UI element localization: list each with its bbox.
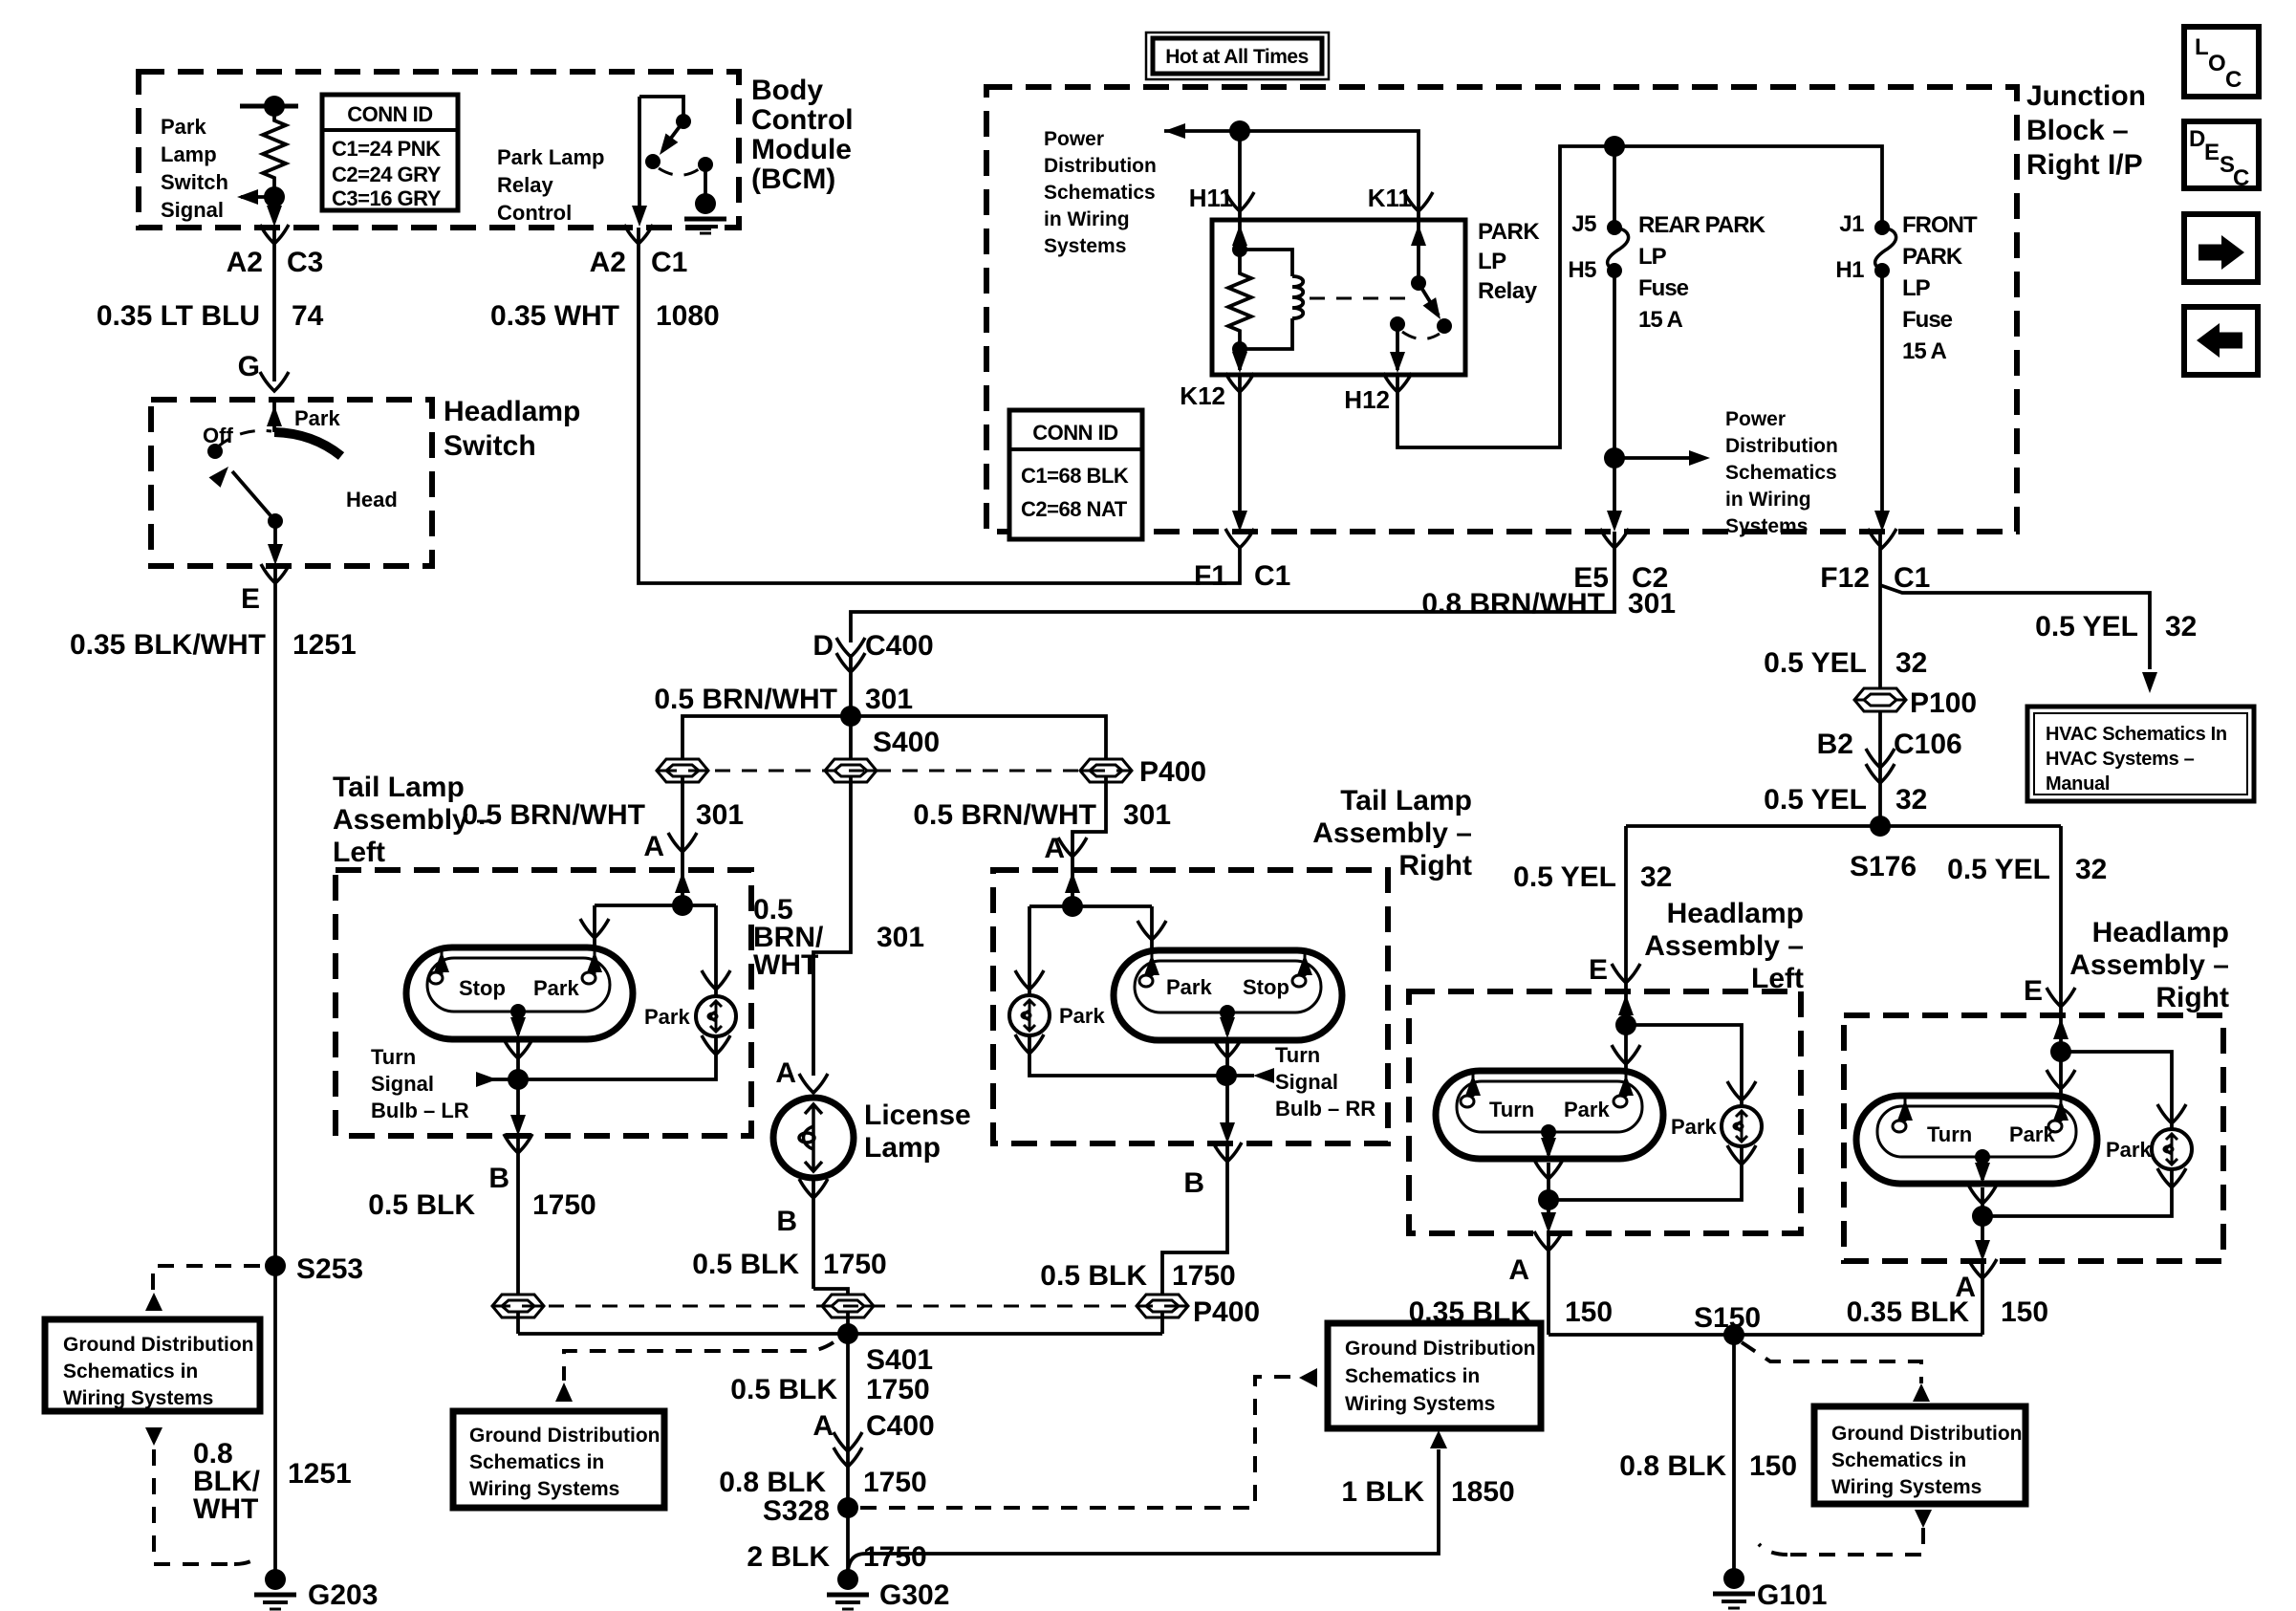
svg-text:Bulb – LR: Bulb – LR	[371, 1099, 469, 1122]
svg-text:Signal: Signal	[161, 198, 224, 222]
svg-text:Assembly –: Assembly –	[2069, 949, 2229, 981]
svg-text:H5: H5	[1568, 257, 1596, 283]
svg-text:0.5 YEL: 0.5 YEL	[1513, 861, 1616, 893]
svg-text:150: 150	[1749, 1450, 1797, 1482]
svg-text:K12: K12	[1180, 381, 1225, 410]
svg-text:C2=24 GRY: C2=24 GRY	[332, 163, 442, 186]
svg-text:1251: 1251	[292, 629, 357, 661]
svg-text:Left: Left	[333, 837, 385, 868]
svg-text:B: B	[1183, 1167, 1204, 1199]
svg-text:1251: 1251	[288, 1458, 352, 1490]
svg-text:A: A	[812, 1410, 834, 1442]
svg-text:0.8 BLK: 0.8 BLK	[1619, 1450, 1726, 1482]
svg-text:Control: Control	[751, 104, 854, 136]
svg-text:F1: F1	[1194, 560, 1227, 592]
svg-text:Schematics: Schematics	[1725, 462, 1837, 484]
svg-text:S176: S176	[1850, 851, 1917, 882]
svg-text:G: G	[238, 351, 260, 382]
svg-text:G302: G302	[879, 1579, 949, 1611]
svg-text:1750: 1750	[863, 1467, 927, 1498]
svg-text:32: 32	[2165, 611, 2197, 642]
svg-text:Signal: Signal	[371, 1072, 434, 1096]
svg-text:0.5 BRN/WHT: 0.5 BRN/WHT	[913, 799, 1096, 831]
svg-text:Park: Park	[1564, 1098, 1610, 1121]
svg-text:0.5 YEL: 0.5 YEL	[1764, 784, 1867, 816]
svg-text:E: E	[2024, 975, 2043, 1007]
svg-text:B: B	[776, 1206, 797, 1237]
svg-text:A2: A2	[590, 247, 626, 278]
svg-text:74: 74	[292, 300, 324, 332]
svg-text:Module: Module	[751, 134, 852, 165]
svg-text:FRONT: FRONT	[1902, 212, 1978, 238]
svg-text:Right: Right	[1398, 850, 1472, 882]
svg-text:Switch: Switch	[444, 430, 536, 462]
svg-text:O: O	[2208, 51, 2225, 76]
svg-text:150: 150	[2001, 1296, 2048, 1328]
svg-text:G101: G101	[1757, 1579, 1827, 1611]
svg-text:0.8 BRN/WHT: 0.8 BRN/WHT	[1421, 588, 1605, 620]
svg-text:WHT: WHT	[753, 949, 818, 981]
svg-text:S150: S150	[1694, 1302, 1761, 1334]
svg-text:in Wiring: in Wiring	[1044, 208, 1130, 230]
svg-text:HVAC Schematics In: HVAC Schematics In	[2046, 724, 2227, 745]
svg-text:C106: C106	[1894, 729, 1962, 760]
svg-text:Fuse: Fuse	[1638, 275, 1689, 301]
svg-text:J1: J1	[1839, 211, 1864, 237]
svg-text:Park: Park	[2009, 1122, 2055, 1146]
svg-text:1750: 1750	[866, 1374, 930, 1405]
svg-text:301: 301	[1123, 799, 1171, 831]
svg-text:0.35 BLK/WHT: 0.35 BLK/WHT	[70, 629, 266, 661]
svg-text:A: A	[775, 1057, 796, 1089]
svg-text:Switch: Switch	[161, 170, 228, 194]
svg-text:G203: G203	[308, 1579, 378, 1611]
svg-text:Park: Park	[1166, 975, 1212, 999]
svg-text:Lamp: Lamp	[864, 1132, 941, 1164]
svg-text:H12: H12	[1344, 385, 1390, 414]
svg-text:PARK: PARK	[1902, 244, 1963, 270]
svg-text:Relay: Relay	[1478, 278, 1538, 304]
svg-text:0.35 BLK: 0.35 BLK	[1409, 1296, 1532, 1328]
svg-text:WHT: WHT	[193, 1493, 258, 1525]
svg-text:B2: B2	[1817, 729, 1853, 760]
svg-text:Park: Park	[644, 1005, 690, 1029]
svg-text:C: C	[2233, 165, 2249, 191]
svg-text:K11: K11	[1368, 184, 1412, 212]
svg-text:Turn: Turn	[1275, 1043, 1320, 1067]
svg-text:301: 301	[865, 684, 913, 715]
svg-text:Schematics in: Schematics in	[469, 1451, 604, 1473]
svg-text:C3: C3	[287, 247, 323, 278]
svg-text:2 BLK: 2 BLK	[747, 1541, 830, 1573]
svg-text:301: 301	[696, 799, 744, 831]
svg-text:0.5 BLK: 0.5 BLK	[692, 1249, 799, 1280]
svg-text:C: C	[2225, 67, 2242, 93]
svg-text:C2=68 NAT: C2=68 NAT	[1021, 497, 1128, 521]
svg-text:Park: Park	[1671, 1115, 1717, 1139]
svg-text:Hot at All Times: Hot at All Times	[1165, 46, 1309, 68]
svg-text:Wiring Systems: Wiring Systems	[63, 1387, 213, 1409]
svg-text:Tail Lamp: Tail Lamp	[333, 772, 465, 803]
svg-text:0.35 LT BLU: 0.35 LT BLU	[97, 300, 260, 332]
svg-text:Park: Park	[294, 406, 340, 430]
svg-text:S253: S253	[296, 1253, 363, 1285]
svg-text:Headlamp: Headlamp	[2092, 917, 2229, 948]
svg-text:A: A	[1508, 1254, 1529, 1286]
svg-text:Wiring Systems: Wiring Systems	[469, 1478, 619, 1500]
svg-text:Park: Park	[2106, 1138, 2152, 1162]
svg-text:Tail Lamp: Tail Lamp	[1340, 785, 1472, 816]
svg-text:15 A: 15 A	[1638, 307, 1682, 333]
svg-text:Ground Distribution: Ground Distribution	[63, 1334, 253, 1356]
svg-text:E: E	[1589, 954, 1608, 986]
svg-text:A: A	[643, 831, 664, 862]
svg-text:Assembly –: Assembly –	[1644, 930, 1804, 962]
svg-text:Schematics in: Schematics in	[1831, 1449, 1966, 1471]
svg-text:LP: LP	[1478, 249, 1506, 274]
svg-text:Signal: Signal	[1275, 1070, 1338, 1094]
svg-text:150: 150	[1565, 1296, 1613, 1328]
svg-text:Lamp: Lamp	[161, 142, 217, 166]
svg-text:S401: S401	[866, 1344, 933, 1376]
svg-text:Systems: Systems	[1725, 515, 1808, 537]
svg-text:0.5 YEL: 0.5 YEL	[1947, 854, 2050, 885]
svg-text:Assembly –: Assembly –	[333, 804, 492, 836]
svg-text:Park: Park	[533, 976, 579, 1000]
svg-text:0.5 BLK: 0.5 BLK	[368, 1189, 475, 1221]
svg-text:CONN ID: CONN ID	[347, 102, 432, 126]
svg-text:Right: Right	[2155, 982, 2229, 1013]
svg-text:Ground Distribution: Ground Distribution	[469, 1425, 660, 1447]
svg-text:0.5 BLK: 0.5 BLK	[730, 1374, 837, 1405]
svg-text:(BCM): (BCM)	[751, 163, 835, 195]
svg-text:Distribution: Distribution	[1725, 435, 1838, 457]
svg-text:0.35 WHT: 0.35 WHT	[490, 300, 619, 332]
svg-text:0.5 BRN/WHT: 0.5 BRN/WHT	[654, 684, 837, 715]
svg-text:Power: Power	[1725, 408, 1786, 430]
svg-text:Wiring Systems: Wiring Systems	[1831, 1476, 1982, 1498]
svg-text:301: 301	[877, 922, 924, 953]
svg-text:301: 301	[1628, 588, 1676, 620]
svg-text:Ground Distribution: Ground Distribution	[1831, 1423, 2022, 1445]
svg-text:1750: 1750	[823, 1249, 887, 1280]
svg-text:PARK: PARK	[1478, 219, 1540, 245]
svg-text:LP: LP	[1902, 275, 1931, 301]
svg-text:C1: C1	[651, 247, 687, 278]
svg-text:Stop: Stop	[459, 976, 506, 1000]
svg-text:L: L	[2195, 34, 2208, 60]
svg-text:Right I/P: Right I/P	[2026, 149, 2143, 181]
svg-text:A: A	[1044, 833, 1065, 864]
svg-text:LP: LP	[1638, 244, 1667, 270]
svg-text:Park Lamp: Park Lamp	[497, 145, 605, 169]
svg-text:0.35 BLK: 0.35 BLK	[1847, 1296, 1970, 1328]
svg-text:Fuse: Fuse	[1902, 307, 1953, 333]
svg-text:Manual: Manual	[2046, 773, 2110, 795]
svg-text:C3=16 GRY: C3=16 GRY	[332, 186, 442, 210]
svg-text:Off: Off	[203, 424, 233, 447]
svg-text:Assembly –: Assembly –	[1312, 817, 1472, 849]
svg-text:1750: 1750	[863, 1541, 927, 1573]
svg-text:D: D	[2189, 126, 2205, 152]
svg-text:Relay: Relay	[497, 173, 553, 197]
svg-text:in Wiring: in Wiring	[1725, 489, 1811, 511]
svg-text:32: 32	[1640, 861, 1672, 893]
svg-text:Power: Power	[1044, 128, 1104, 150]
svg-text:Headlamp: Headlamp	[1667, 898, 1804, 929]
svg-text:E: E	[2204, 140, 2220, 165]
svg-text:Turn: Turn	[1927, 1122, 1972, 1146]
svg-text:P400: P400	[1139, 756, 1206, 788]
svg-text:0.5 BLK: 0.5 BLK	[1040, 1260, 1147, 1292]
svg-text:1 BLK: 1 BLK	[1341, 1476, 1424, 1508]
svg-text:H11: H11	[1189, 184, 1233, 212]
svg-text:C1=68 BLK: C1=68 BLK	[1021, 464, 1129, 488]
svg-text:Bulb – RR: Bulb – RR	[1275, 1097, 1375, 1121]
svg-text:0.8 BLK: 0.8 BLK	[719, 1467, 826, 1498]
svg-text:Wiring Systems: Wiring Systems	[1345, 1393, 1495, 1415]
svg-text:32: 32	[2075, 854, 2107, 885]
svg-text:B: B	[488, 1163, 509, 1194]
svg-text:Distribution: Distribution	[1044, 155, 1157, 177]
svg-text:Park: Park	[1059, 1004, 1105, 1028]
svg-text:C400: C400	[865, 630, 934, 662]
svg-text:HVAC Systems –: HVAC Systems –	[2046, 749, 2195, 770]
svg-text:1080: 1080	[656, 300, 720, 332]
svg-text:Ground Distribution: Ground Distribution	[1345, 1338, 1535, 1360]
svg-text:S328: S328	[763, 1495, 830, 1527]
svg-text:Park: Park	[161, 115, 206, 139]
svg-text:0.5 YEL: 0.5 YEL	[2035, 611, 2138, 642]
svg-text:Schematics in: Schematics in	[63, 1361, 198, 1382]
svg-text:C400: C400	[866, 1410, 935, 1442]
svg-text:32: 32	[1895, 647, 1927, 679]
svg-text:Schematics in: Schematics in	[1345, 1365, 1480, 1387]
svg-text:Schematics: Schematics	[1044, 182, 1156, 204]
svg-text:Block –: Block –	[2026, 115, 2129, 146]
svg-text:Systems: Systems	[1044, 235, 1126, 257]
svg-text:A2: A2	[227, 247, 263, 278]
svg-text:Control: Control	[497, 201, 572, 225]
svg-text:C1=24 PNK: C1=24 PNK	[332, 137, 441, 161]
svg-text:Headlamp: Headlamp	[444, 396, 580, 427]
svg-text:License: License	[864, 1099, 971, 1131]
svg-text:F12: F12	[1820, 562, 1870, 594]
svg-text:E: E	[241, 583, 260, 615]
svg-text:C1: C1	[1894, 562, 1930, 594]
svg-text:Turn: Turn	[371, 1045, 416, 1069]
svg-text:Head: Head	[346, 488, 398, 512]
svg-text:Junction: Junction	[2026, 80, 2146, 112]
svg-text:REAR PARK: REAR PARK	[1638, 212, 1766, 238]
svg-text:P400: P400	[1193, 1296, 1260, 1328]
svg-text:H1: H1	[1835, 257, 1864, 283]
svg-text:Body: Body	[751, 75, 823, 106]
svg-text:S400: S400	[873, 727, 940, 758]
svg-text:1850: 1850	[1451, 1476, 1515, 1508]
svg-text:15 A: 15 A	[1902, 338, 1946, 364]
svg-text:C1: C1	[1254, 560, 1290, 592]
svg-text:0.5 YEL: 0.5 YEL	[1764, 647, 1867, 679]
svg-text:P100: P100	[1910, 687, 1977, 719]
svg-text:J5: J5	[1571, 211, 1596, 237]
svg-text:32: 32	[1895, 784, 1927, 816]
svg-text:1750: 1750	[1172, 1260, 1236, 1292]
svg-text:1750: 1750	[532, 1189, 596, 1221]
svg-text:Turn: Turn	[1489, 1098, 1534, 1121]
svg-text:D: D	[812, 630, 834, 662]
svg-text:Stop: Stop	[1243, 975, 1289, 999]
svg-text:CONN ID: CONN ID	[1032, 421, 1117, 445]
